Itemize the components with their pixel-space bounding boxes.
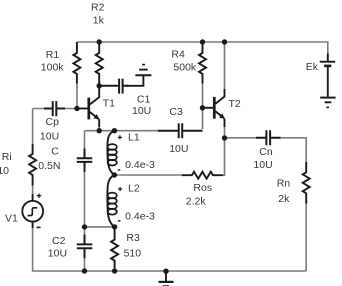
svg-text:Ek: Ek: [306, 61, 319, 73]
svg-text:R2: R2: [91, 2, 105, 14]
svg-text:0.4e-3: 0.4e-3: [125, 159, 155, 171]
svg-text:10U: 10U: [48, 247, 67, 259]
svg-text:10U: 10U: [253, 159, 272, 171]
svg-text:1k: 1k: [93, 14, 105, 26]
svg-text:R1: R1: [46, 49, 60, 61]
svg-text:2k: 2k: [278, 193, 290, 205]
svg-text:10: 10: [0, 165, 9, 177]
svg-text:V1: V1: [5, 212, 18, 224]
svg-text:10U: 10U: [132, 105, 151, 117]
svg-text:L2: L2: [128, 183, 140, 195]
svg-text:L1: L1: [128, 131, 140, 143]
svg-text:10U: 10U: [169, 143, 188, 155]
svg-text:Ros: Ros: [193, 182, 212, 194]
svg-text:100k: 100k: [41, 62, 65, 74]
svg-text:Cp: Cp: [46, 116, 60, 128]
svg-text:T2: T2: [229, 98, 241, 110]
svg-text:0.4e-3: 0.4e-3: [125, 211, 155, 223]
svg-text:R4: R4: [171, 48, 185, 60]
svg-text:T1: T1: [103, 98, 115, 110]
svg-text:R3: R3: [126, 232, 140, 244]
svg-text:Rn: Rn: [277, 178, 291, 190]
svg-text:2.2k: 2.2k: [186, 195, 207, 207]
svg-text:Cn: Cn: [259, 146, 273, 158]
svg-text:C1: C1: [137, 94, 151, 106]
svg-text:Ri: Ri: [2, 151, 12, 163]
svg-text:500k: 500k: [173, 62, 197, 74]
svg-text:C: C: [51, 146, 59, 158]
svg-text:C2: C2: [52, 235, 66, 247]
svg-text:C3: C3: [169, 106, 183, 118]
svg-text:0.5N: 0.5N: [38, 160, 60, 172]
svg-text:10U: 10U: [40, 131, 59, 143]
svg-text:510: 510: [124, 247, 142, 259]
